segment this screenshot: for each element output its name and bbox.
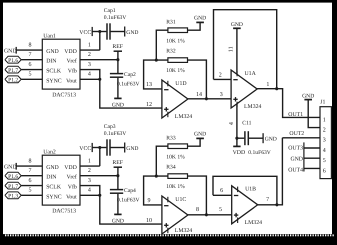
- svg-text:6: 6: [29, 62, 32, 68]
- svg-text:OUT3: OUT3: [288, 145, 303, 151]
- ground symbol above R33: [194, 131, 206, 138]
- svg-text:1: 1: [88, 43, 91, 49]
- op-amp U1D LM324: [162, 80, 192, 120]
- svg-text:P1.7: P1.7: [8, 184, 18, 190]
- svg-text:GND: GND: [46, 165, 59, 171]
- svg-text:13: 13: [146, 82, 152, 88]
- svg-text:J1: J1: [320, 100, 325, 106]
- Uan2 right pin numbers 1 2 3 4: [88, 159, 91, 194]
- op-amp U1C LM324: [162, 196, 192, 234]
- border top bar: [0, 0, 337, 3]
- wire Uan1 pin 2 Vref to REF node: [80, 59, 118, 61]
- svg-text:GND: GND: [265, 137, 277, 143]
- ground symbol above J1: [302, 93, 314, 99]
- svg-text:0.1uF63V: 0.1uF63V: [104, 131, 127, 137]
- junction R33/R34 left node: [155, 175, 158, 178]
- junction Vfb/Vout: [98, 78, 101, 81]
- svg-text:LM324: LM324: [175, 114, 192, 120]
- svg-text:1: 1: [323, 117, 326, 123]
- op-amp U1A LM324: [231, 70, 261, 110]
- svg-text:DIN: DIN: [46, 175, 57, 181]
- wire Uan1 pin 4 Vout: [80, 78, 100, 80]
- svg-text:3: 3: [323, 138, 326, 144]
- wire stub J1 pin 6: [304, 167, 320, 169]
- border bottom serration: [4, 234, 334, 236]
- wire VCC to Cap3: [92, 147, 106, 149]
- wire U1D output to U1A non-inverting input: [188, 98, 231, 100]
- Uan1 right pin numbers 1 2 3 4: [88, 43, 91, 78]
- DAC Uan1 (DAC7513): [42, 33, 80, 98]
- svg-text:GND: GND: [302, 93, 314, 99]
- resistor R31 10K 1%: [166, 20, 187, 45]
- junction REF node: [116, 174, 119, 177]
- svg-text:VDD: VDD: [64, 165, 77, 171]
- svg-text:VCC: VCC: [79, 30, 91, 36]
- ground symbol at U1A pin 11: [231, 22, 243, 28]
- junction U1D output / R32: [205, 97, 208, 100]
- ground symbol above R31: [194, 15, 206, 22]
- svg-text:1: 1: [266, 82, 269, 88]
- wire Uan2 pin 2 Vref to REF node: [80, 175, 118, 177]
- junction U1B output/feedback: [275, 203, 278, 206]
- svg-text:Uan1: Uan1: [43, 33, 56, 39]
- svg-text:6: 6: [323, 168, 326, 174]
- svg-text:R34: R34: [166, 165, 176, 171]
- svg-text:4: 4: [323, 148, 326, 154]
- capacitor Cap1 0.1uF63V: [104, 8, 127, 40]
- wire C11 to GND terminal: [248, 137, 263, 139]
- junction R31/R32 left node: [155, 59, 158, 62]
- junction U1A output/feedback: [275, 87, 278, 90]
- wire stub J1 pin 4: [304, 147, 320, 149]
- wire Cap4 to ground: [117, 194, 119, 214]
- junction pin4/C11: [235, 137, 238, 140]
- wire U1B output up to OUT2: [258, 138, 283, 205]
- svg-text:R33: R33: [166, 136, 176, 142]
- wire Cap1 to GND terminal: [110, 31, 125, 33]
- svg-text:Vref: Vref: [67, 58, 77, 65]
- svg-text:OUT1: OUT1: [288, 112, 303, 118]
- svg-text:1: 1: [88, 159, 91, 165]
- svg-text:U1D: U1D: [175, 81, 186, 87]
- wire Cap3 to GND terminal: [110, 147, 125, 149]
- DAC Uan2 (DAC7513): [42, 149, 80, 214]
- node wire to U1C inverting input (pin 9 net): [144, 176, 168, 205]
- wire R32 right lead down to U1D output: [188, 60, 207, 99]
- wire ground to J1 pin 2: [308, 100, 320, 128]
- svg-text:0.1uF63V: 0.1uF63V: [104, 15, 127, 21]
- svg-text:GND: GND: [194, 15, 206, 21]
- wire ground to U1A pin 11: [236, 28, 238, 74]
- resistor R34 10K 1%: [166, 165, 187, 191]
- svg-text:7: 7: [29, 168, 32, 174]
- svg-text:VDD: VDD: [64, 49, 77, 55]
- capacitor Cap4 0.1uF63V: [110, 176, 140, 204]
- power port GND (left of Uan1): [4, 47, 17, 55]
- border right bar: [332, 0, 337, 245]
- power port VCC: [79, 27, 92, 36]
- svg-text:Vfb: Vfb: [68, 68, 77, 75]
- svg-text:SYNC: SYNC: [46, 78, 62, 84]
- svg-text:U1C: U1C: [175, 197, 186, 203]
- svg-text:5: 5: [29, 188, 32, 194]
- wire Uan2 pin 3 Vfb: [80, 186, 100, 196]
- border left bar: [0, 0, 3, 245]
- wire Uan1 pin 3 Vfb: [80, 70, 100, 80]
- feedback wire U1A output to pin 2 (loop): [214, 10, 277, 89]
- svg-text:GND: GND: [46, 49, 59, 55]
- svg-text:Vfb: Vfb: [68, 184, 77, 191]
- svg-text:Vout: Vout: [66, 194, 77, 200]
- svg-text:GND: GND: [4, 48, 17, 54]
- svg-text:P1.2: P1.2: [8, 78, 18, 84]
- svg-text:P1.7: P1.7: [8, 68, 18, 74]
- wire P1.7 to Uan2 pin 6: [21, 185, 42, 187]
- svg-text:GND: GND: [290, 156, 303, 162]
- svg-text:Cap3: Cap3: [104, 124, 116, 130]
- svg-text:6: 6: [220, 188, 223, 194]
- svg-text:10K 1%: 10K 1%: [166, 68, 185, 74]
- wire R31 right lead up to ground: [188, 22, 201, 30]
- svg-text:5: 5: [29, 72, 32, 78]
- svg-text:Cap2: Cap2: [124, 72, 136, 78]
- svg-text:2: 2: [88, 168, 91, 174]
- wire P1.3 to Uan2 pin 5: [21, 194, 42, 196]
- wire R31 left lead down to node: [156, 30, 168, 60]
- power port VDD below U1A: [233, 146, 246, 156]
- svg-text:2: 2: [323, 128, 326, 134]
- svg-text:5: 5: [219, 207, 222, 213]
- svg-text:GND: GND: [231, 22, 243, 28]
- svg-text:GND: GND: [4, 164, 17, 170]
- wire Vout down/right to op-amp non-inverting input: [100, 195, 162, 224]
- svg-text:Uan2: Uan2: [43, 149, 56, 155]
- net flag P1.7: [5, 66, 21, 74]
- net flag P1.6: [5, 56, 21, 64]
- wire P1.6 to Uan1 pin 7: [21, 59, 42, 61]
- net flag P1.3: [5, 192, 21, 200]
- wire Cap2 to ground: [117, 78, 119, 98]
- svg-text:8: 8: [29, 43, 32, 49]
- svg-text:C11: C11: [242, 121, 251, 127]
- svg-text:11: 11: [229, 46, 235, 52]
- power port GND (left of Uan2): [4, 163, 17, 171]
- resistor R33 10K 1%: [166, 136, 187, 161]
- svg-text:SYNC: SYNC: [46, 194, 62, 200]
- svg-text:0.1uF63V: 0.1uF63V: [248, 150, 271, 156]
- svg-text:VCC: VCC: [79, 146, 91, 152]
- wire VCC node down to Uan2 pin 1 (VDD): [80, 148, 100, 167]
- svg-text:GND: GND: [126, 146, 138, 152]
- svg-text:Cap1: Cap1: [104, 8, 116, 14]
- svg-text:P1.6: P1.6: [8, 58, 18, 64]
- ground symbol below Cap2: [112, 98, 124, 108]
- border bottom bar: [0, 234, 337, 245]
- Uan1 left pin numbers 8 7 6 5: [29, 43, 32, 78]
- svg-text:LM324: LM324: [245, 220, 262, 226]
- svg-text:SCLK: SCLK: [46, 69, 62, 75]
- wire U1A pin 4 down to VDD: [236, 103, 238, 146]
- stub terminal bar: [303, 142, 305, 171]
- svg-text:LM324: LM324: [244, 104, 261, 110]
- svg-text:P1.3: P1.3: [8, 194, 18, 200]
- junction Vfb/Vout: [98, 194, 101, 197]
- wire GND to Uan1 pin 8: [16, 49, 42, 51]
- svg-text:3: 3: [220, 92, 223, 98]
- wire Vout down/right to op-amp non-inverting input: [100, 79, 162, 108]
- capacitor Cap2 0.1uF63V: [110, 60, 140, 88]
- svg-text:OUT2: OUT2: [289, 131, 304, 137]
- svg-text:DAC7513: DAC7513: [52, 92, 76, 98]
- svg-text:9: 9: [148, 198, 151, 204]
- net symbol REF: [112, 44, 123, 60]
- svg-text:4: 4: [88, 72, 91, 78]
- svg-text:P1.6: P1.6: [8, 174, 18, 180]
- ground terminal at C11: [263, 133, 277, 143]
- capacitor Cap3 0.1uF63V: [104, 124, 127, 156]
- svg-text:2: 2: [88, 52, 91, 58]
- wire U1A inverting input (pin 2): [214, 78, 232, 80]
- ground terminal at Cap3: [125, 143, 139, 153]
- svg-text:U1A: U1A: [245, 71, 257, 77]
- svg-text:10K 1%: 10K 1%: [166, 39, 185, 45]
- svg-text:8: 8: [29, 159, 32, 165]
- op-amp U1B LM324: [232, 186, 262, 226]
- svg-text:10: 10: [146, 218, 152, 224]
- svg-text:VDD: VDD: [233, 150, 246, 156]
- connector J1: [320, 100, 331, 179]
- wire Uan2 pin 4 Vout: [80, 194, 100, 196]
- net flag P1.2: [5, 76, 21, 84]
- svg-text:SCLK: SCLK: [46, 185, 62, 191]
- svg-text:12: 12: [146, 102, 152, 108]
- ground terminal at Cap1: [125, 27, 139, 37]
- feedback wire U1B output to pin 6 (loop): [213, 176, 277, 205]
- wire R33 right lead up to ground: [188, 138, 201, 146]
- wire U1B inverting input (pin 6): [213, 194, 232, 196]
- wire GND to Uan2 pin 8: [16, 165, 42, 167]
- net symbol REF: [112, 160, 123, 176]
- svg-text:2: 2: [219, 72, 222, 78]
- net flag P1.7: [5, 182, 21, 190]
- svg-text:8: 8: [196, 207, 199, 213]
- svg-text:7: 7: [266, 197, 269, 203]
- svg-text:R32: R32: [166, 49, 176, 55]
- wire P1.2 to Uan1 pin 5: [21, 78, 42, 80]
- resistor R32 10K 1%: [166, 49, 187, 74]
- svg-text:0.1uF63V: 0.1uF63V: [117, 81, 140, 87]
- capacitor C11 0.1uF63V: [237, 121, 271, 157]
- svg-text:14: 14: [196, 92, 202, 98]
- svg-text:3: 3: [88, 178, 91, 184]
- svg-text:REF: REF: [112, 160, 123, 166]
- wire R33 left lead down to node: [156, 146, 168, 176]
- power port VCC: [79, 143, 92, 152]
- node wire to U1D inverting input (pin 13 net): [144, 60, 168, 89]
- wire VCC to Cap1: [92, 31, 106, 33]
- svg-text:4: 4: [88, 188, 91, 194]
- svg-text:Vref: Vref: [67, 174, 77, 181]
- wire stub J1 pin 5: [304, 157, 320, 159]
- ground symbol below Cap4: [112, 214, 124, 224]
- junction U1C output / R34: [205, 213, 208, 216]
- wire U1A output to OUT1 corner: [257, 89, 320, 118]
- svg-text:LM324: LM324: [175, 228, 192, 234]
- junction REF node: [116, 58, 119, 61]
- svg-text:Cap4: Cap4: [124, 188, 136, 194]
- svg-text:0.1uF63V: 0.1uF63V: [117, 197, 140, 203]
- svg-text:3: 3: [88, 62, 91, 68]
- svg-text:GND: GND: [194, 131, 206, 137]
- svg-text:Vout: Vout: [66, 78, 77, 84]
- wire P1.7 to Uan1 pin 6: [21, 69, 42, 71]
- wire VCC node down to Uan1 pin 1 (VDD): [80, 32, 100, 51]
- wire P1.6 to Uan2 pin 7: [21, 175, 42, 177]
- svg-text:DAC7513: DAC7513: [52, 208, 76, 214]
- net flag P1.6: [5, 172, 21, 180]
- junction VCC/VDD node: [98, 146, 101, 149]
- wire OUT2 to J1 pin 3: [282, 137, 320, 139]
- svg-text:10K 1%: 10K 1%: [166, 184, 185, 190]
- svg-text:6: 6: [29, 178, 32, 184]
- wire U1C output to U1B non-inverting input: [188, 214, 232, 216]
- svg-text:REF: REF: [112, 44, 123, 50]
- svg-text:DIN: DIN: [46, 59, 57, 65]
- wire R34 right lead down to U1C output: [188, 176, 207, 215]
- svg-text:10K 1%: 10K 1%: [166, 155, 185, 161]
- svg-text:OUT4: OUT4: [288, 168, 303, 174]
- svg-text:5: 5: [323, 158, 326, 164]
- svg-text:4: 4: [229, 122, 235, 125]
- svg-text:R31: R31: [166, 20, 176, 26]
- Uan2 left pin numbers 8 7 6 5: [29, 159, 32, 194]
- junction VCC/VDD node: [98, 30, 101, 33]
- svg-text:U1B: U1B: [245, 187, 256, 193]
- svg-text:GND: GND: [126, 30, 138, 36]
- svg-text:7: 7: [29, 52, 32, 58]
